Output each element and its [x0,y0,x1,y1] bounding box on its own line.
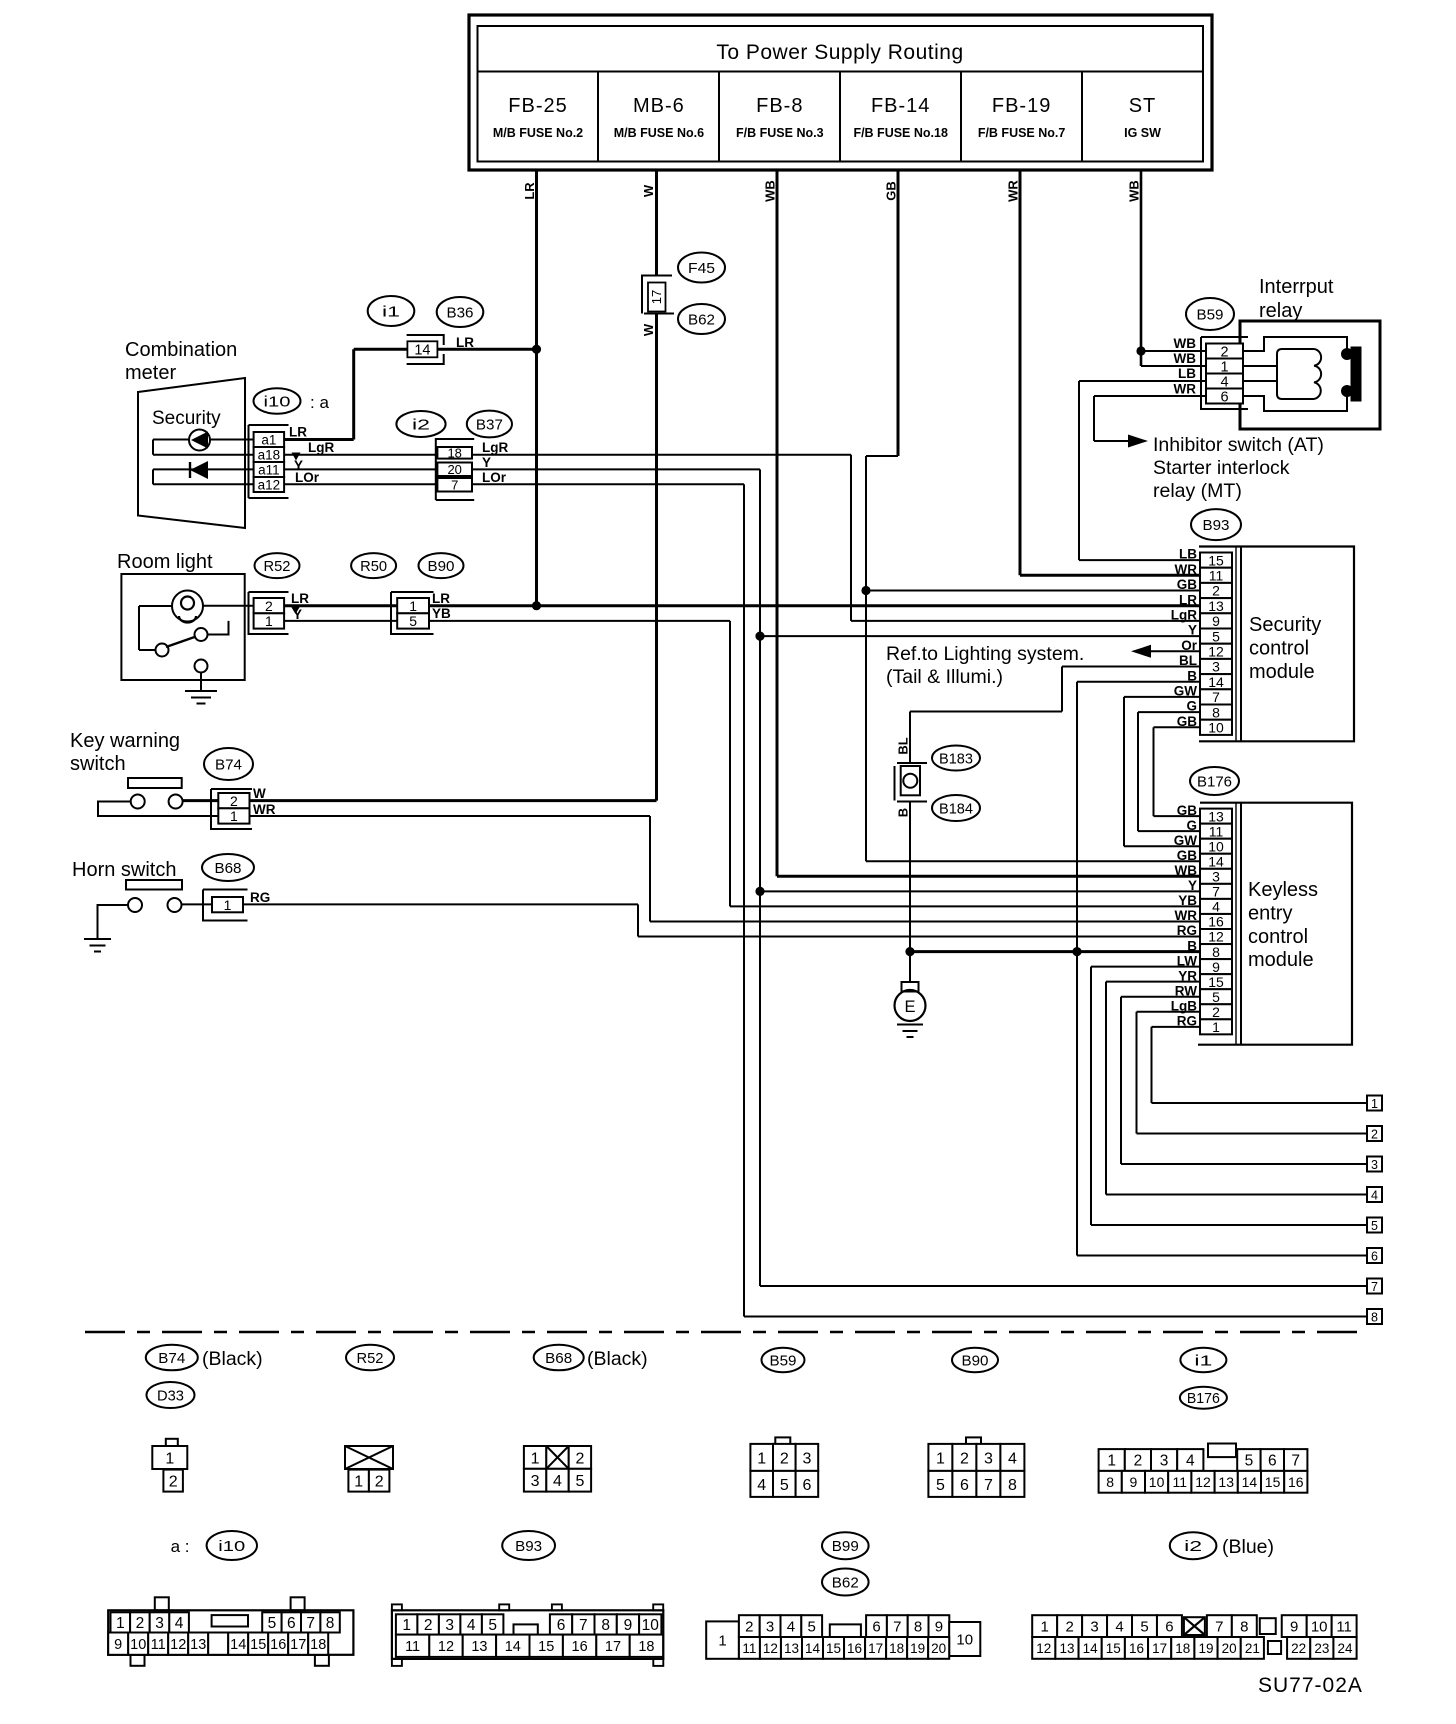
svg-text:13: 13 [1208,598,1224,614]
connector i10 on combination meter (pins a1 a18 a11 a12) [249,425,289,498]
svg-text:WR: WR [253,802,276,817]
svg-text:23: 23 [1314,1641,1329,1656]
connector i2/B37 (pins 18 20 7) [436,439,474,500]
svg-text:LR: LR [432,591,450,606]
svg-text:module: module [1249,661,1315,683]
wire GW security pin 7 to keyless pin 10 [1124,697,1200,846]
svg-text:2: 2 [169,1474,178,1491]
connector face B68 [524,1446,591,1492]
svg-text:14: 14 [414,342,430,358]
svg-text:6: 6 [557,1617,566,1634]
svg-text:10: 10 [1208,719,1224,735]
terminal 6 [1367,1248,1382,1263]
svg-text:Y: Y [293,607,302,622]
junction dot WB at relay pin 2 [1136,346,1145,355]
svg-text:2: 2 [960,1450,969,1467]
svg-text:16: 16 [1208,914,1224,930]
svg-text:B176: B176 [1187,1390,1220,1407]
svg-text:3: 3 [531,1473,540,1490]
svg-text:11: 11 [1209,567,1224,583]
svg-text:14: 14 [505,1639,521,1655]
svg-text:GB: GB [884,181,899,201]
svg-text:1: 1 [531,1450,540,1467]
svg-text:1: 1 [1212,1019,1220,1035]
svg-text:LOr: LOr [482,470,507,485]
wire LR from meter a1 to connector i1 pin 14 [284,335,536,440]
svg-text:9: 9 [935,1619,943,1636]
wire LgR from meter a18 to security pin 9 [284,440,1200,621]
svg-text:LgR: LgR [482,440,508,455]
svg-text:WB: WB [1174,336,1197,351]
svg-text:B184: B184 [939,800,973,817]
svg-text:11: 11 [1336,1619,1352,1636]
svg-text:4: 4 [175,1615,184,1632]
svg-text:control: control [1248,926,1308,948]
ground (horn switch) [84,939,111,952]
svg-text:B37: B37 [476,416,503,433]
svg-text:switch: switch [70,753,126,775]
wire GB security pin 10 to keyless pin 13 [1154,727,1201,816]
svg-text:7: 7 [579,1617,588,1634]
security module pin boxes [1171,547,1232,736]
svg-text:WB: WB [1127,180,1142,202]
wire BL security pin 3 to connector B183 [896,667,1200,764]
svg-text:B62: B62 [688,311,715,328]
svg-text:13: 13 [190,1637,206,1653]
wire WB from ST to interrupt relay pins 2 and 1 [1127,170,1206,366]
svg-text:17: 17 [649,290,664,304]
svg-text:1: 1 [230,808,238,824]
svg-text:LB: LB [1178,366,1196,381]
relay contact dots [1341,348,1353,397]
oval D33 [147,1382,195,1408]
svg-text:3: 3 [155,1615,164,1632]
svg-text:RG: RG [1177,923,1197,938]
svg-text:module: module [1248,949,1314,971]
svg-text:10: 10 [956,1632,973,1649]
svg-text:F/B FUSE No.7: F/B FUSE No.7 [978,126,1066,140]
connector R52 (pins 2 1) [249,592,289,634]
room light switch [139,606,229,673]
svg-text:6: 6 [1268,1453,1277,1470]
svg-text:a1: a1 [261,432,276,447]
svg-text:7: 7 [1212,689,1220,705]
svg-text:relay (MT): relay (MT) [1153,480,1242,502]
svg-text:Room light: Room light [117,551,213,573]
svg-text:B176: B176 [1197,773,1232,790]
svg-text:FB-25: FB-25 [508,95,567,117]
svg-text:20: 20 [931,1641,946,1656]
wire LgB keyless pin 2 to terminal 2 [1137,1012,1368,1134]
oval i1 (bottom) [1180,1348,1226,1372]
svg-text:5: 5 [1140,1619,1148,1636]
svg-text:1: 1 [1041,1619,1049,1636]
svg-text:W: W [641,184,656,197]
oval B59 (bottom) [762,1348,805,1372]
svg-text:4: 4 [1371,1188,1378,1202]
oval B90 (bottom) [952,1348,998,1372]
svg-text:3: 3 [1160,1453,1169,1470]
svg-text:B68: B68 [215,860,242,877]
svg-text:8: 8 [1106,1474,1114,1490]
wire RG from horn switch to keyless pin 12 [243,890,1200,937]
oval B74 [204,748,253,780]
svg-text:FB-14: FB-14 [871,95,930,117]
combination meter body [125,339,245,528]
svg-text:WB: WB [1175,863,1198,878]
svg-text:1: 1 [265,613,273,629]
svg-text:2: 2 [745,1619,753,1636]
svg-text:5: 5 [1212,628,1220,644]
svg-text:14: 14 [230,1637,246,1653]
svg-text:12: 12 [1208,643,1224,659]
svg-text:14: 14 [1208,674,1224,690]
svg-text:Y: Y [1188,623,1197,638]
svg-text:2: 2 [1212,583,1220,599]
svg-text:13: 13 [1059,1641,1074,1656]
wire LR room light to R50 [284,591,397,622]
svg-text:1: 1 [936,1450,945,1467]
svg-text:3: 3 [1371,1158,1378,1172]
connector face B90 [928,1437,1024,1497]
connector B68 (pin 1) [203,890,248,921]
svg-text:LR: LR [456,335,474,350]
svg-text:1: 1 [224,897,232,913]
svg-text:B90: B90 [962,1352,989,1369]
wire B net (security pin 14, keyless pin 8, ground E, terminal 6) [910,682,1367,1256]
svg-text:Starter interlock: Starter interlock [1153,457,1290,479]
svg-text:5: 5 [1371,1219,1378,1233]
wire W below pin 17 to key warning switch [250,314,657,801]
svg-text:1: 1 [409,598,417,614]
wire G security pin 8 to keyless pin 11 [1138,712,1200,831]
connector F45/B62 pin 17 [641,276,674,337]
horn switch [72,859,212,938]
svg-text:B99: B99 [832,1538,859,1555]
svg-text:entry: entry [1248,902,1292,924]
svg-text:15: 15 [826,1641,841,1656]
svg-text:18: 18 [310,1637,326,1653]
connector B74 (pins 2 1) [211,789,252,829]
svg-text:i1: i1 [1194,1352,1212,1369]
svg-text:15: 15 [538,1639,554,1655]
oval R52 [255,553,300,578]
svg-text:LR: LR [291,591,309,606]
svg-text:2: 2 [230,793,238,809]
svg-text:10: 10 [130,1637,146,1653]
svg-text:7: 7 [984,1477,993,1494]
svg-text:LB: LB [1179,547,1197,562]
wire LOr from meter a12 to terminal 8 [284,470,1367,1317]
svg-text:7: 7 [306,1615,315,1632]
svg-text:18: 18 [638,1639,654,1655]
svg-text:2: 2 [424,1617,433,1634]
oval B62 [678,304,725,334]
svg-text:B59: B59 [770,1352,797,1369]
junction dot Y at keyless pin 7 [755,887,764,896]
oval B176 [1190,767,1239,795]
interrupt relay U B59 [1240,276,1380,429]
svg-text:11: 11 [1209,823,1224,839]
connector i1/B36 pin 14 [407,335,444,364]
svg-text:B93: B93 [1203,517,1230,534]
svg-text:WR: WR [1175,562,1198,577]
svg-text:17: 17 [868,1641,883,1656]
svg-text:W: W [253,786,266,801]
svg-text:15: 15 [1106,1641,1121,1656]
svg-text:2: 2 [265,598,273,614]
svg-text:20: 20 [447,462,461,477]
wire WR from key warning to keyless pin 16 [250,802,1201,922]
svg-text:6: 6 [287,1615,296,1632]
svg-text:LR: LR [522,182,537,200]
svg-text:BL: BL [896,737,911,754]
svg-text:19: 19 [910,1641,925,1656]
svg-text:B68: B68 [545,1350,572,1367]
svg-text:i10: i10 [264,393,291,410]
wire YR keyless pin 15 to terminal 4 [1106,982,1367,1195]
svg-text:10: 10 [1208,838,1224,854]
svg-text:1: 1 [757,1450,766,1467]
junction dot Y at security pin 5 [755,632,764,641]
svg-text:14: 14 [805,1641,821,1656]
svg-text:15: 15 [1265,1474,1281,1490]
connector face B93 [392,1604,663,1666]
wire W from MB-6 (vertical to connector F45) [641,170,656,276]
svg-text:MB-6: MB-6 [633,95,685,117]
svg-text:6: 6 [802,1477,811,1494]
svg-text:13: 13 [1218,1474,1234,1490]
wire Or security pin 12 with arrow to lighting system [1131,645,1200,658]
svg-text:Y: Y [482,455,491,470]
svg-text:8: 8 [1212,704,1220,720]
svg-text:M/B FUSE No.2: M/B FUSE No.2 [493,126,583,140]
svg-text:16: 16 [1129,1641,1144,1656]
svg-text:17: 17 [290,1637,306,1653]
svg-text:F/B FUSE No.3: F/B FUSE No.3 [736,126,824,140]
terminal 5 [1367,1218,1382,1233]
connector face i1/B176 [1099,1444,1308,1493]
svg-text:4: 4 [1115,1619,1123,1636]
svg-text:LgR: LgR [1171,608,1197,623]
svg-text:(Black): (Black) [202,1348,263,1370]
ground E (body earth) [895,952,926,1037]
svg-text:i2: i2 [412,416,430,433]
svg-text:5: 5 [1212,989,1220,1005]
room light bulb [172,591,203,623]
svg-text:YB: YB [432,606,451,621]
svg-text:14: 14 [1208,853,1224,869]
oval B62 (bottom) [822,1569,869,1596]
svg-text:To Power Supply Routing: To Power Supply Routing [716,41,963,64]
svg-text:Inhibitor switch (AT): Inhibitor switch (AT) [1153,434,1324,456]
svg-text:M/B FUSE No.6: M/B FUSE No.6 [614,126,704,140]
oval B99 [822,1532,869,1559]
svg-text:LR: LR [289,425,307,440]
svg-text:2: 2 [375,1474,384,1491]
svg-text:5: 5 [808,1619,816,1636]
svg-text:GB: GB [1177,848,1198,863]
connector B59 (pins 2 1 4 6) [1174,336,1249,409]
svg-text:9: 9 [624,1617,633,1634]
connector face B74/D33 [152,1439,187,1492]
svg-text:18: 18 [1175,1641,1190,1656]
svg-text:R50: R50 [360,558,387,575]
svg-text:B36: B36 [447,304,474,321]
svg-text:7: 7 [893,1619,901,1636]
svg-text:i10: i10 [218,1538,245,1555]
svg-text:1: 1 [354,1474,363,1491]
terminal 3 [1367,1157,1382,1172]
svg-text:B59: B59 [1197,306,1224,323]
Ref to Lighting system reference text [886,643,1084,688]
svg-text:8: 8 [326,1615,335,1632]
wire Y room light to R50 [284,620,397,622]
svg-text:5: 5 [268,1615,277,1632]
security control module U B93 [1199,547,1354,742]
svg-text:B74: B74 [215,756,242,773]
svg-text:16: 16 [847,1641,862,1656]
svg-text:15: 15 [1208,552,1224,568]
a : i10 note [171,1531,257,1560]
svg-text:5: 5 [409,613,417,629]
svg-text:10: 10 [1311,1619,1328,1636]
svg-text:F/B FUSE No.18: F/B FUSE No.18 [853,126,948,140]
oval B68 (bottom) with Black note [534,1345,648,1371]
svg-text:5: 5 [780,1477,789,1494]
wire WR relay pin 6 to inhibitor switch reference [1094,396,1206,448]
svg-text:3: 3 [984,1450,993,1467]
svg-text:1: 1 [402,1617,411,1634]
svg-text:B62: B62 [832,1574,859,1591]
oval F45 [678,253,725,283]
svg-text:6: 6 [960,1477,969,1494]
svg-text:3: 3 [445,1617,454,1634]
connector face i10 [108,1597,353,1666]
connector B183/B184 (illumination sensor) [895,763,928,817]
svg-text:LgR: LgR [308,440,334,455]
svg-text:B93: B93 [515,1538,542,1555]
terminal 4 [1367,1187,1382,1202]
svg-text:WR: WR [1006,180,1021,202]
svg-text:a18: a18 [258,447,281,462]
svg-text:2: 2 [575,1450,584,1467]
svg-text:LOr: LOr [295,470,320,485]
svg-text:18: 18 [889,1641,904,1656]
svg-text:9: 9 [1212,959,1220,975]
svg-text:9: 9 [1130,1474,1138,1490]
oval B59 [1186,298,1234,330]
svg-text:YB: YB [1178,893,1197,908]
svg-text:(Black): (Black) [587,1348,648,1370]
svg-text:Interrput: Interrput [1259,276,1334,298]
svg-text:: a: : a [310,393,329,412]
svg-text:GB: GB [1177,577,1198,592]
svg-text:8: 8 [914,1619,922,1636]
svg-text:2: 2 [136,1615,145,1632]
wire B from B184 down to B net [909,801,911,952]
svg-text:13: 13 [1208,808,1224,824]
wire LR from FB-25 (vertical) [522,170,537,606]
svg-text:(Blue): (Blue) [1222,1536,1274,1558]
ground (room light) [185,673,217,704]
svg-text:Keyless: Keyless [1248,879,1318,901]
svg-text:E: E [904,998,915,1016]
svg-text:13: 13 [471,1639,487,1655]
oval B183 [932,746,980,771]
oval R50 [351,553,396,578]
oval i2 [396,411,445,437]
svg-text:Security: Security [152,408,221,429]
svg-text:8: 8 [1212,944,1220,960]
svg-text:Security: Security [1249,614,1321,636]
svg-text:6: 6 [1165,1619,1173,1636]
svg-text:17: 17 [605,1639,621,1655]
wire RG keyless pin 1 to terminal 1 [1152,1027,1368,1103]
svg-text:8: 8 [1008,1477,1017,1494]
svg-text:6: 6 [1220,389,1228,405]
svg-text:F45: F45 [688,260,715,277]
svg-text:R52: R52 [264,558,291,575]
oval R52 (bottom) [346,1345,394,1371]
svg-text:B74: B74 [158,1350,185,1367]
svg-text:relay: relay [1259,300,1302,322]
svg-text:6: 6 [872,1619,880,1636]
wire LB relay pin 4 to security pin 15 [1079,381,1206,560]
terminal 1 [1367,1096,1382,1111]
svg-text:4: 4 [1186,1453,1195,1470]
svg-text:2: 2 [1134,1453,1143,1470]
svg-text:4: 4 [553,1473,562,1490]
svg-text:16: 16 [572,1639,588,1655]
oval B36 [437,297,484,327]
svg-text:7: 7 [1291,1453,1300,1470]
oval B90 [419,553,464,578]
junction dot LR / room light line [532,601,541,610]
svg-text:a12: a12 [258,477,281,492]
diode (combination meter) [153,461,254,484]
svg-text:4: 4 [467,1617,476,1634]
svg-text:7: 7 [1212,884,1220,900]
svg-text:5: 5 [488,1617,497,1634]
wire WR from FB-19 to security pin 11 [1006,170,1200,575]
svg-text:19: 19 [1198,1641,1213,1656]
power supply routing box [469,15,1212,170]
svg-text:14: 14 [1083,1641,1099,1656]
svg-text:B: B [896,808,911,817]
svg-text:D33: D33 [157,1387,184,1404]
oval B93 [1191,509,1241,540]
svg-text:(Tail & Illumi.): (Tail & Illumi.) [886,666,1003,688]
svg-text:7: 7 [1371,1280,1378,1294]
relay contact bar [1351,347,1361,401]
relay internal wires [1243,337,1347,411]
svg-text:Combination: Combination [125,339,237,361]
svg-text:2: 2 [1065,1619,1073,1636]
svg-text:11: 11 [405,1639,420,1655]
junction dot B at x1077 [1072,947,1081,956]
svg-text:1: 1 [1371,1097,1378,1111]
svg-text:12: 12 [1208,929,1224,945]
svg-text:2: 2 [780,1450,789,1467]
oval B68 [202,854,254,881]
connector face i2 [1032,1615,1356,1659]
svg-text:1: 1 [116,1615,125,1632]
svg-text:7: 7 [1215,1619,1223,1636]
svg-text:WB: WB [1174,351,1197,366]
svg-text:12: 12 [763,1641,778,1656]
dashed separator line [85,1331,1360,1334]
